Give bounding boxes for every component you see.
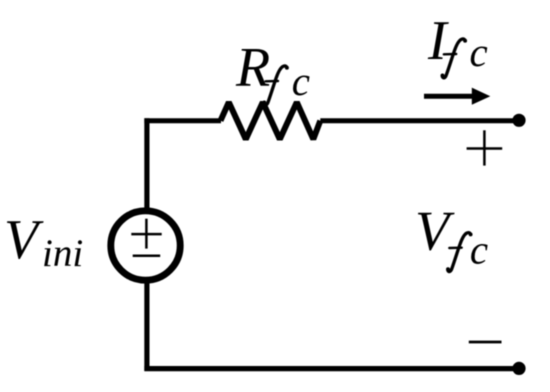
wire top horizontal from source to resistor xyxy=(144,118,221,123)
wire bottom horizontal xyxy=(144,366,519,371)
resistor R_fc zigzag xyxy=(221,102,321,139)
svg-text:V: V xyxy=(415,201,455,263)
voltage source V_ini circle xyxy=(111,211,180,280)
voltage source minus sign xyxy=(133,255,161,258)
terminal minus sign xyxy=(469,341,502,344)
svg-text:c: c xyxy=(292,58,310,104)
node top-right terminal dot xyxy=(512,114,525,127)
wire left vertical upper xyxy=(144,118,149,211)
current arrow for I_fc xyxy=(424,94,475,99)
svg-text:V: V xyxy=(4,209,44,271)
label V_fc subscript f xyxy=(446,232,473,271)
svg-text:c: c xyxy=(470,29,488,75)
voltage source plus sign xyxy=(131,233,161,236)
svg-text:c: c xyxy=(470,226,488,272)
label I_fc subscript f xyxy=(441,39,468,78)
wire top horizontal from resistor to terminal xyxy=(320,118,519,123)
svg-text:I: I xyxy=(427,10,449,72)
node bottom-right terminal dot xyxy=(512,362,525,375)
svg-text:R: R xyxy=(235,37,270,99)
wire left vertical lower xyxy=(144,280,149,371)
label R_fc subscript f xyxy=(262,66,289,105)
terminal plus sign xyxy=(467,147,503,150)
svg-text:ini: ini xyxy=(42,232,83,275)
